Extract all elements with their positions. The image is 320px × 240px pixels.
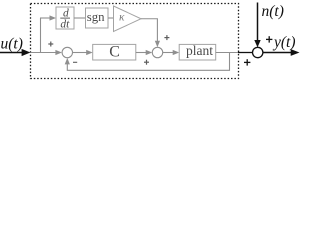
wire: node 2 to plant	[163, 52, 174, 54]
svg-text:κ: κ	[119, 11, 125, 23]
arrowhead into node 1	[55, 50, 62, 55]
wire: into d/dt	[40, 17, 50, 19]
wire: d/dt to sgn	[74, 17, 86, 19]
svg-text:y(t): y(t)	[272, 34, 296, 51]
plus sign at noise input	[266, 36, 272, 42]
dashed subsystem box	[31, 4, 239, 79]
wire: noise n(t) into output node	[257, 3, 259, 42]
summing node 3 (output)	[253, 47, 263, 57]
summing node 1	[62, 47, 72, 57]
plus sign at node 2 top input	[164, 35, 169, 40]
wire: u into summing node 1	[31, 52, 57, 54]
plus sign at node 1 input	[48, 42, 53, 47]
wire: plant output inside box	[216, 52, 239, 54]
summing node 2	[152, 47, 162, 57]
svg-text:plant: plant	[186, 43, 213, 58]
svg-text:sgn: sgn	[87, 10, 105, 24]
svg-text:dt: dt	[60, 18, 70, 30]
svg-text:C: C	[109, 43, 120, 60]
wire: node1 to C	[73, 52, 88, 54]
plus sign at output node left input	[244, 59, 250, 65]
block C	[93, 43, 136, 60]
wire: gain to summing node 2	[141, 19, 157, 42]
block d/dt	[56, 7, 74, 30]
svg-text:u(t): u(t)	[1, 36, 23, 53]
wire: plant output to output node (black)	[238, 52, 253, 54]
svg-text:n(t): n(t)	[262, 3, 284, 20]
gain triangle kappa	[114, 6, 142, 32]
wire: C to node 2	[136, 52, 147, 54]
wire: feedback loop	[67, 53, 229, 71]
block sgn	[86, 8, 109, 28]
wire: branch riser to differentiator path	[40, 18, 42, 53]
wire: sgn to gain	[108, 17, 114, 19]
wire: input arrow u(t)	[0, 49, 30, 56]
block plant	[179, 43, 216, 60]
minus sign at node 1 feedback input	[73, 61, 77, 63]
plus sign at node 2 left input	[144, 60, 149, 65]
wire: output arrow y(t)	[263, 52, 292, 54]
